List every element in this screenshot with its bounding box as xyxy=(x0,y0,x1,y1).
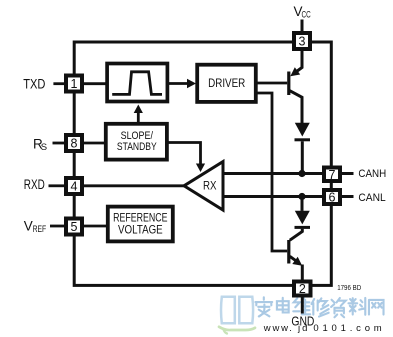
wire pin 3 down to Q1 emitter xyxy=(295,49,303,73)
svg-text:0101.com: 0101.com xyxy=(313,323,385,334)
svg-text:S: S xyxy=(41,142,47,153)
svg-text:CANL: CANL xyxy=(358,192,385,204)
transistor Q2 emitter arrow xyxy=(292,257,302,266)
svg-text:8: 8 xyxy=(71,137,78,151)
watermark char 7 (wang) xyxy=(369,300,384,315)
wire VREF dash xyxy=(50,225,64,228)
svg-text:5: 5 xyxy=(71,220,78,234)
svg-text:www.: www. xyxy=(263,323,294,334)
pin 1 box xyxy=(66,76,82,92)
svg-text:1: 1 xyxy=(71,77,78,91)
wire TXD to pin 1 xyxy=(53,82,64,85)
node junction CANL xyxy=(298,193,305,200)
wire pin 8 to slope/standby xyxy=(84,142,105,145)
svg-text:1796 BD: 1796 BD xyxy=(337,285,361,292)
wire driver to Q1 base xyxy=(258,82,288,85)
watermark char 3 (wei) xyxy=(293,298,310,314)
svg-text:RX: RX xyxy=(203,178,217,192)
svg-text:STANDBY: STANDBY xyxy=(117,141,157,153)
wire pin 5 to reference voltage xyxy=(84,225,108,228)
svg-text:V: V xyxy=(24,218,33,233)
IC boundary rectangle xyxy=(74,42,331,285)
wire slope/standby up to wave shaper (arrow) xyxy=(134,105,143,123)
svg-text:CC: CC xyxy=(302,9,311,20)
diode D1 xyxy=(295,123,311,171)
svg-text:RXD: RXD xyxy=(24,177,45,192)
transistor Q2 base bar xyxy=(287,240,290,264)
wire driver to Q2 base xyxy=(258,93,288,251)
wire pin 1 to wave shaper xyxy=(84,82,106,85)
label VREF xyxy=(24,218,47,235)
wire CANL down to diode D2 xyxy=(301,197,304,211)
pin 7 box xyxy=(324,168,340,182)
label RS xyxy=(33,137,47,153)
watermark book icon xyxy=(219,297,255,334)
watermark char 2 (dian) xyxy=(277,298,289,313)
wire pin 7 dash xyxy=(342,172,354,175)
pin 6 box xyxy=(324,190,340,204)
transistor Q2 emitter lead xyxy=(290,256,297,261)
pin 4 box xyxy=(66,178,82,194)
transistor Q1 base bar xyxy=(287,72,290,96)
watermark char 6 (liao) xyxy=(348,298,365,315)
pin 8 box xyxy=(66,135,82,151)
block REFERENCE VOLTAGE xyxy=(108,207,173,242)
svg-text:GND: GND xyxy=(291,314,314,329)
svg-text:REF: REF xyxy=(33,224,47,235)
block DRIVER U2 xyxy=(197,65,256,102)
transistor Q1 emitter arrow xyxy=(290,67,300,76)
watermark char 1 (jia) xyxy=(255,297,272,316)
diode D2 xyxy=(290,211,310,241)
node junction CANH xyxy=(298,170,305,177)
label VCC xyxy=(294,4,311,20)
svg-text:3: 3 xyxy=(299,35,306,49)
svg-text:7: 7 xyxy=(329,168,336,182)
wire RXD dash xyxy=(49,184,65,187)
svg-text:VOLTAGE: VOLTAGE xyxy=(118,224,163,237)
wire Q2 emitter to pin 2 xyxy=(301,265,304,281)
block wave shaper xyxy=(107,64,167,102)
svg-text:CANH: CANH xyxy=(358,168,386,180)
wire VCC stub to pin 3 xyxy=(301,20,304,34)
wire CANH net xyxy=(223,172,323,175)
pin 2 box xyxy=(294,282,311,297)
pin 3 box xyxy=(294,33,310,49)
wire RS to pin 8 xyxy=(53,142,65,145)
wire wave shaper to driver (arrow) xyxy=(168,79,196,88)
wire CANL net xyxy=(223,195,323,198)
wire pin 2 to GND xyxy=(301,298,304,314)
svg-text:TXD: TXD xyxy=(23,77,45,92)
watermark char 5 (zi) xyxy=(331,298,346,317)
pin 5 box xyxy=(66,219,82,235)
svg-text:REFERENCE: REFERENCE xyxy=(113,212,168,225)
wire slope/standby to RX amp (arrow) xyxy=(168,143,205,173)
op-amp RX receiver xyxy=(184,162,223,210)
wire pin 4 to RX amp xyxy=(84,184,184,187)
transistor Q1 collector lead xyxy=(290,91,303,123)
watermark char 4 (xiu) xyxy=(312,298,329,316)
svg-text:6: 6 xyxy=(329,190,336,204)
svg-text:DRIVER: DRIVER xyxy=(208,76,245,90)
svg-text:4: 4 xyxy=(71,180,78,194)
svg-text:2: 2 xyxy=(299,282,306,296)
watermark url text xyxy=(263,323,386,334)
block SLOPE/STANDBY xyxy=(106,124,167,160)
wire pin 6 dash xyxy=(342,195,354,198)
